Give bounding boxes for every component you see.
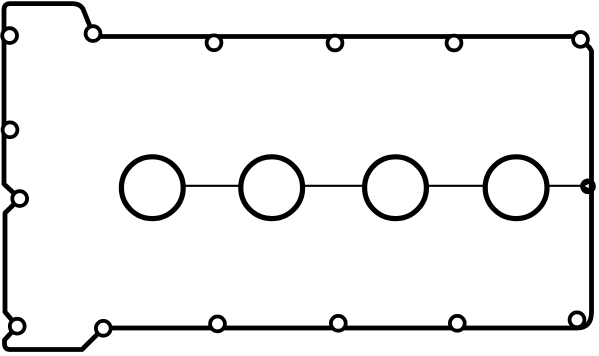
bolt holes top <box>86 26 101 41</box>
right edge dot <box>580 179 596 195</box>
cam lobe circle 4 <box>485 157 547 219</box>
bolt holes left <box>2 28 17 43</box>
cam lobe circle 1 <box>121 157 183 219</box>
cam lobe circle 3 <box>365 157 427 219</box>
bolt holes bottom <box>10 319 25 334</box>
cam lobe circle 2 <box>241 157 303 219</box>
thin cam line <box>152 185 588 187</box>
